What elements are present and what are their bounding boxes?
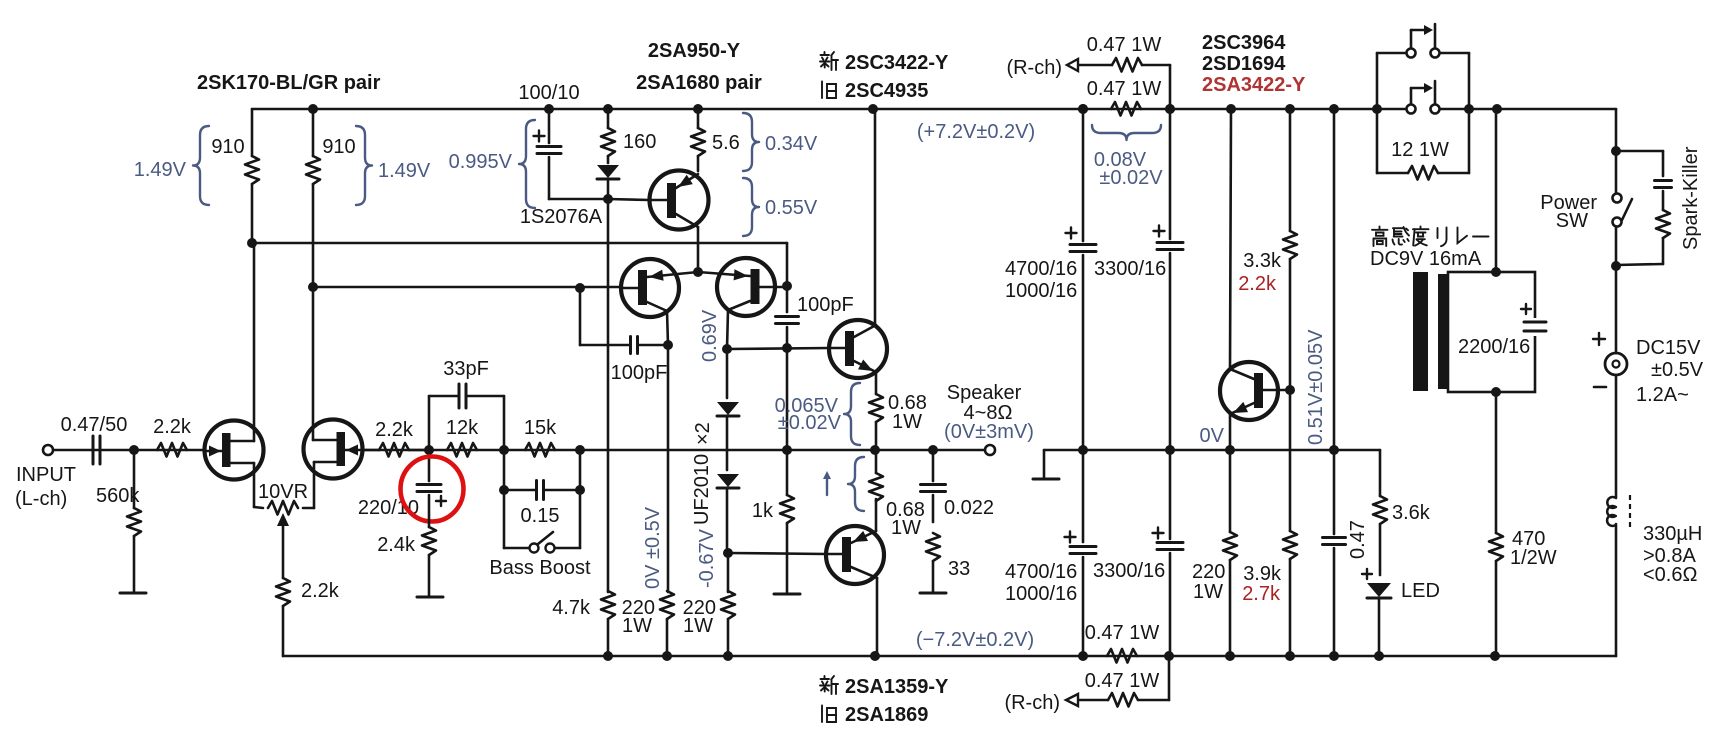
svg-text:2.7k: 2.7k [1242,583,1281,605]
svg-text:2.2k: 2.2k [1238,273,1277,295]
svg-text:2SC3422-Y: 2SC3422-Y [845,52,949,74]
node rail 100/10 [544,104,554,114]
wire right drop [1615,109,1618,151]
node rail 910R [308,104,318,114]
wire base node drop [786,348,789,450]
resistor 2.2k feedback [362,449,379,452]
node 910R bottom [308,282,318,292]
wire collector to base line [727,348,829,349]
node relay left [1372,104,1382,114]
capacitor 100pF left [579,288,582,345]
node emitters junction [693,267,703,277]
svg-text:2.2k: 2.2k [153,416,192,438]
svg-text:0V: 0V [1200,425,1225,447]
resistor 470 1/2W [1489,533,1503,561]
node 910L bottom [247,238,257,248]
svg-text:2SD1694: 2SD1694 [1202,53,1286,75]
capacitor 0.47/50 [92,436,95,464]
wire second rail (JFET1 drain to right PNP base) [252,242,787,245]
svg-text:-0.67V: -0.67V [696,528,718,588]
svg-text:15k: 15k [524,417,557,439]
resistor 12k [447,443,477,457]
svg-text:0V ±0.5V: 0V ±0.5V [642,506,664,589]
ground under 2.4k [417,596,443,599]
node 15k right [575,445,585,455]
wire +7.2V top rail [252,108,1406,111]
svg-text:4.7k: 4.7k [552,597,591,619]
transistor Q1 2SK170 left [205,421,264,480]
node zobel [928,445,938,455]
annotation 0.34V [743,113,759,171]
svg-text:(R-ch): (R-ch) [1004,692,1060,714]
svg-text:2SK170-BL/GR pair: 2SK170-BL/GR pair [197,72,381,94]
annotation 0.995V [519,120,535,208]
svg-text:(−7.2V±0.2V): (−7.2V±0.2V) [916,629,1034,651]
svg-text:±0.02V: ±0.02V [778,412,842,434]
svg-text:×2: ×2 [692,422,714,445]
svg-text:0.69V: 0.69V [699,309,721,362]
annotation 0.065V [844,383,860,445]
annotation up arrow [826,477,828,495]
annotation 1.49V left [193,126,209,205]
node 0V cap2 [1165,445,1175,455]
node right collector [722,344,732,354]
svg-text:2SA1869: 2SA1869 [845,704,928,726]
resistor 12 1W [1376,109,1379,173]
svg-text:1.2A~: 1.2A~ [1636,384,1689,406]
svg-text:<0.6Ω: <0.6Ω [1643,564,1697,586]
ground under 1k [774,593,800,596]
wire coil top [1495,109,1498,272]
svg-text:3.3k: 3.3k [1243,250,1282,272]
node 220M bottom [723,651,733,661]
resistor 3.3k 2.2k [1289,109,1292,231]
transistor Q8 relay driver [1220,362,1278,420]
svg-text:DC9V 16mA: DC9V 16mA [1370,248,1482,270]
diode UF2010 upper [717,402,739,415]
svg-text:1W: 1W [622,615,652,637]
cap bank bottom 2 3300/16 [1169,450,1172,539]
resistor 0.47 1W bottom series [1107,649,1137,663]
relay coil [1413,272,1428,391]
svg-text:33pF: 33pF [443,358,489,380]
svg-text:3.9k: 3.9k [1243,563,1282,585]
svg-text:0.51V±0.05V: 0.51V±0.05V [1305,329,1327,445]
resistor 220 1W right [1229,450,1232,532]
node 12k right [499,445,509,455]
annotation 1.49V right [356,126,372,205]
resistor 2.2k tail [276,578,290,606]
wire rail to 0V [1333,109,1336,450]
capacitor 100pF right [786,286,789,312]
svg-text:2.2k: 2.2k [301,580,340,602]
svg-text:2SC4935: 2SC4935 [845,80,928,102]
resistor 160 [607,109,610,128]
capacitor 220/10 [428,450,431,481]
svg-text:2.2k: 2.2k [375,419,414,441]
resistor 2.2k input [157,443,187,457]
wire 0V mid line [1044,449,1380,452]
wire 4.7k feed [607,199,610,592]
node left PNP collector [663,340,673,350]
svg-text:0.47 1W: 0.47 1W [1085,670,1160,692]
node lower base [723,548,733,558]
resistor 3.6k [1379,450,1382,496]
resistor 0.47 1W top series [1111,102,1141,116]
wire diode chain [726,349,729,398]
svg-text:4700/16: 4700/16 [1005,258,1077,280]
title new 2SA1359-Y [824,676,826,679]
transistor Q2 2SK170 right [304,420,363,479]
svg-text:(R-ch): (R-ch) [1006,57,1062,79]
svg-text:2200/16: 2200/16 [1458,336,1530,358]
svg-text:0.47 1W: 0.47 1W [1085,622,1160,644]
svg-text:910: 910 [322,136,355,158]
svg-text:Speaker: Speaker [947,382,1022,404]
transistor Q6 2SC3422 top [829,320,887,378]
red circle highlight [401,457,464,522]
svg-text:910: 910 [211,136,244,158]
svg-text:1.49V: 1.49V [378,160,431,182]
resistor 910 left [251,109,254,156]
svg-text:0.55V: 0.55V [765,197,818,219]
svg-text:1k: 1k [752,500,774,522]
svg-text:0.47/50: 0.47/50 [61,414,128,436]
svg-text:2SC3964: 2SC3964 [1202,32,1286,54]
node right PNP base [782,281,792,291]
source DC15V [1615,266,1618,353]
svg-text:0.022: 0.022 [944,497,994,519]
transistor Q7 2SA1359 bottom [826,526,884,584]
svg-text:12k: 12k [446,417,479,439]
capacitor 100/10 [548,109,551,143]
svg-text:160: 160 [623,131,656,153]
svg-text:1W: 1W [683,615,713,637]
ground under 560k [120,592,146,595]
wire left collector load [667,345,670,592]
svg-text:33: 33 [948,558,970,580]
node rail 0.47 top [1165,104,1175,114]
cap bank bottom 1 4700/16 [1082,450,1085,542]
svg-text:1000/16: 1000/16 [1005,280,1077,302]
svg-text:0.15: 0.15 [521,505,560,527]
svg-text:±0.02V: ±0.02V [1099,167,1163,189]
svg-text:4700/16: 4700/16 [1005,561,1077,583]
svg-text:2SA1359-Y: 2SA1359-Y [845,676,949,698]
wire 2SA950 collector [697,227,700,272]
resistor 15k [525,443,555,457]
svg-text:1/2W: 1/2W [1510,547,1557,569]
spark killer branch [1616,150,1663,153]
svg-text:(+7.2V±0.2V): (+7.2V±0.2V) [917,121,1035,143]
svg-text:Bass Boost: Bass Boost [489,557,591,579]
wire coil bottom [1491,387,1501,397]
title old 2SC4935 [821,82,823,99]
svg-text:DC15V: DC15V [1636,337,1701,359]
node power sw bottom [1611,261,1621,271]
node power sw top [1611,146,1621,156]
svg-text:3.6k: 3.6k [1392,502,1431,524]
node input junction [129,445,139,455]
resistor 220 1W mid [721,591,735,619]
label relay [1379,227,1381,230]
svg-text:UF2010: UF2010 [691,454,713,525]
svg-text:0.995V: 0.995V [449,151,513,173]
svg-text:0.47 1W: 0.47 1W [1087,34,1162,56]
resistor 220 1W left [660,591,674,619]
resistor 5.6 [697,109,700,128]
transistor Q5 2SA1680 right [717,258,775,316]
wire -7.2V bottom rail [283,655,1616,658]
annotation 0.08V [1092,125,1161,140]
node driver base [1285,385,1295,395]
resistor 2.4k [428,495,431,527]
svg-text:1W: 1W [891,517,921,539]
svg-text:100pF: 100pF [797,294,854,316]
wire lower base [728,553,826,554]
diode 1S2076A [597,165,619,178]
svg-text:220: 220 [1192,561,1225,583]
node 100pF left join [575,283,585,293]
capacitor 0.47 [1333,450,1336,534]
svg-text:0.47 1W: 0.47 1W [1087,78,1162,100]
resistor 0.68 1W upper [869,394,883,422]
capacitor 0.022 [932,450,935,481]
node collector bottom rail [870,651,880,661]
node diode bottom [603,194,613,204]
node relay right [1464,104,1474,114]
inductor 330uH [1615,375,1618,497]
svg-text:(0V±3mV): (0V±3mV) [944,421,1034,443]
svg-text:2.4k: 2.4k [377,534,416,556]
resistor 0.47 1W bottom R-ch [1168,656,1171,700]
svg-text:100/10: 100/10 [518,82,579,104]
annotation 0.55V [743,178,759,236]
node rail 160 [603,104,613,114]
resistor 3.9k 2.7k [1289,390,1292,531]
svg-text:560k: 560k [96,485,140,507]
resistor 4.7k [601,591,615,619]
transistor Q3 2SA950 [650,171,709,230]
capacitor 0.15 [503,450,506,490]
node 4.7k bottom [603,651,613,661]
resistor 1k [782,445,792,455]
svg-text:2SA1680 pair: 2SA1680 pair [636,72,762,94]
svg-text:0.47: 0.47 [1347,520,1369,559]
svg-text:±0.5V: ±0.5V [1651,359,1704,381]
resistor 0.68 1W lower [869,473,883,501]
svg-text:220/10: 220/10 [358,497,419,519]
resistor 560k [133,450,136,508]
svg-text:12 1W: 12 1W [1391,139,1449,161]
svg-text:330µH: 330µH [1643,523,1702,545]
svg-text:2SA3422-Y: 2SA3422-Y [1202,74,1306,96]
resistor 910 right [312,109,315,156]
node 220L bottom [662,651,672,661]
svg-text:10VR: 10VR [258,481,308,503]
wire third rail (JFET2 drain to left PNP base) [313,286,622,289]
capacitor 2200/16 [1523,318,1547,336]
node output [870,445,880,455]
potentiometer 10VR [254,507,263,508]
node 100pF right bottom [782,343,792,353]
svg-text:2SA950-Y: 2SA950-Y [648,40,741,62]
svg-text:SW: SW [1556,210,1588,232]
svg-text:1000/16: 1000/16 [1005,583,1077,605]
svg-text:3300/16: 3300/16 [1094,258,1166,280]
node rail collector [868,104,878,114]
node 0V cap1 [1078,445,1088,455]
cap bank top 1 4700/16 [1082,109,1085,241]
title new 2SC3422-Y [824,52,826,55]
relay contact upper [1376,53,1379,109]
wire main signal line [53,449,205,452]
svg-text:LED: LED [1401,580,1440,602]
svg-text:0.34V: 0.34V [765,133,818,155]
ground 0V line [1043,450,1046,479]
input terminal [43,445,53,455]
svg-text:1W: 1W [892,411,922,433]
svg-text:Spark-Killer: Spark-Killer [1680,146,1702,250]
svg-text:1.49V: 1.49V [134,159,187,181]
diode LED [1367,583,1391,597]
ground under 33 [920,592,946,595]
relay contact lower [1407,105,1416,114]
svg-text:1W: 1W [1193,581,1223,603]
title old 2SA1869 [821,706,823,723]
svg-text:(L-ch): (L-ch) [15,488,67,510]
switch Power SW [1615,151,1618,193]
switch Bass Boost [503,490,506,548]
svg-text:INPUT: INPUT [16,464,76,486]
transistor Q4 2SA1680 left [621,259,679,317]
svg-text:5.6: 5.6 [712,132,740,154]
diode UF2010 lower [717,474,739,487]
node feedback [424,445,434,455]
speaker terminal [985,445,995,455]
resistor 0.47 1W top R-ch [1169,65,1172,109]
svg-text:100pF: 100pF [611,362,668,384]
cap bank top 2 3300/16 [1169,109,1172,239]
resistor 33 [926,533,940,561]
capacitor 33pF bridge [428,396,431,450]
node rail 5.6 [693,104,703,114]
wire 220 feed [727,553,730,592]
svg-text:3300/16: 3300/16 [1093,560,1165,582]
node driver emitter [1225,445,1235,455]
svg-text:1S2076A: 1S2076A [520,206,603,228]
